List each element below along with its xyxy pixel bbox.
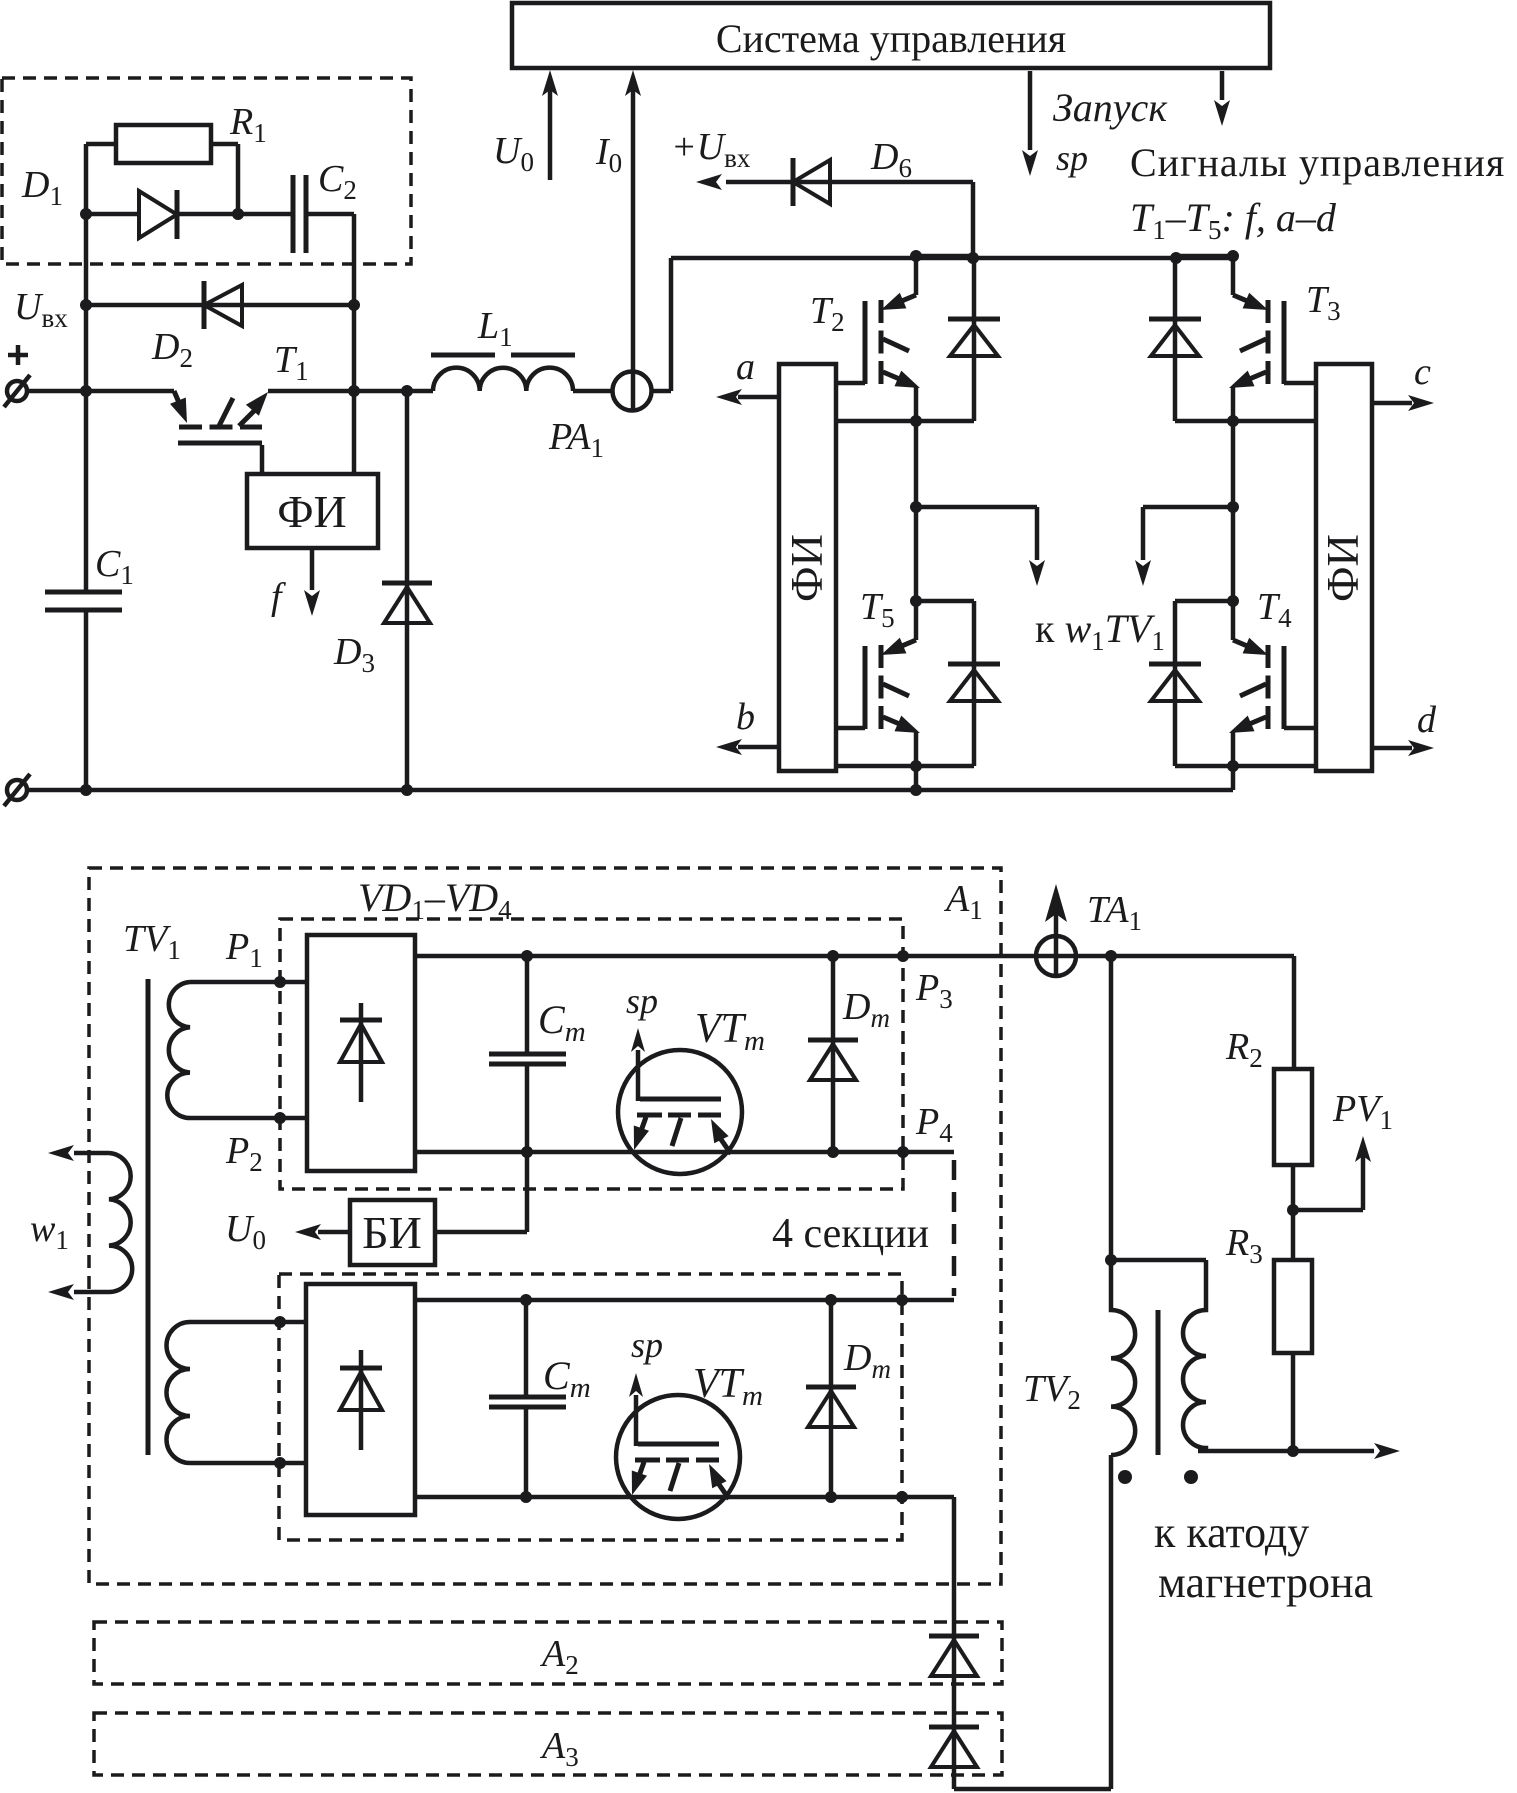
svg-text:sp: sp [631,1325,663,1365]
svg-text:d: d [1417,699,1437,741]
svg-text:sp: sp [626,981,658,1021]
svg-text:ФИ: ФИ [1318,534,1368,602]
svg-text:к катоду: к катоду [1154,1508,1309,1557]
svg-text:b: b [736,696,755,738]
svg-text:магнетрона: магнетрона [1158,1558,1373,1607]
svg-text:sp: sp [1056,138,1088,178]
svg-text:Сигналы управления: Сигналы управления [1130,140,1505,185]
svg-text:ФИ: ФИ [277,486,347,537]
svg-text:4 секции: 4 секции [772,1211,929,1257]
svg-text:c: c [1414,351,1431,393]
svg-text:БИ: БИ [362,1207,422,1258]
svg-text:a: a [736,346,755,388]
svg-text:Система управления: Система управления [716,16,1066,61]
svg-text:Запуск: Запуск [1053,85,1167,130]
svg-text:ФИ: ФИ [782,534,832,602]
svg-text:VD1–VD4: VD1–VD4 [358,875,512,925]
